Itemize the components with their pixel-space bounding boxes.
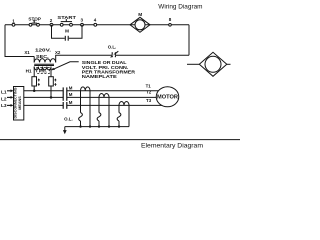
wire: phase line 1: [24, 90, 159, 92]
svg-text:PRI.: PRI.: [39, 68, 47, 73]
wire: overload trip bus: [65, 126, 129, 128]
overload heater OL2: [99, 94, 109, 98]
ground arrow at bus left end: [63, 127, 67, 135]
node 8: [169, 24, 172, 27]
svg-text:T1: T1: [146, 83, 152, 88]
wire: L1 lead-in arrow: [7, 89, 14, 92]
pushbutton STOP (NC): [29, 21, 39, 26]
fuse F2 (control primary fuse, right): [49, 77, 54, 98]
wire: left vertical from rail down to X1 level: [5, 25, 34, 57]
svg-text:4: 4: [94, 18, 97, 23]
wire: phase line 2: [24, 96, 157, 98]
pushbutton START (NO): [60, 19, 72, 26]
wire: OL3 left drop with OL contact: [117, 105, 121, 126]
node 1: [12, 23, 15, 26]
svg-text:8: 8: [169, 17, 172, 22]
disconnecting means box: [14, 87, 24, 121]
node 3: [81, 23, 84, 26]
connection arrows beside fuse F1: [38, 79, 40, 86]
coil M (motor starter coil): [130, 17, 150, 32]
wire: control return rail to X2: [56, 55, 189, 62]
wire: return rail gap at OL contact (rail drawn continuous, small white gap): [113, 54, 116, 56]
svg-text:L1: L1: [1, 90, 7, 96]
contact M power pole 2: [63, 94, 67, 101]
svg-text:O.L.: O.L.: [108, 45, 117, 50]
svg-text:T3: T3: [146, 98, 152, 103]
wire: OL1 left drop with OL contact: [79, 91, 83, 127]
transformer T1 secondary winding: [34, 57, 56, 63]
svg-text:3: 3: [81, 18, 84, 23]
wire: OL2 left drop with OL contact: [97, 97, 101, 126]
svg-text:MOTOR: MOTOR: [157, 94, 178, 100]
transformer core: [34, 64, 54, 65]
svg-text:1: 1: [12, 18, 15, 23]
svg-text:X2: X2: [55, 50, 61, 55]
svg-text:X1: X1: [24, 50, 30, 55]
svg-text:T2: T2: [146, 90, 152, 95]
overload heater OL3: [119, 102, 129, 106]
separator line: [0, 139, 240, 141]
overload heater OL1: [81, 87, 91, 91]
node 4: [94, 23, 97, 26]
wire: OL1 right drop: [89, 91, 91, 127]
wire: OL3 right drop: [128, 105, 130, 126]
fuse F1 (control primary fuse, left): [32, 77, 37, 91]
svg-text:O.L.: O.L.: [64, 117, 73, 122]
contact M power pole 3: [63, 102, 67, 109]
wire: L2 lead-in arrow: [7, 96, 14, 99]
svg-text:M: M: [69, 100, 73, 105]
wire: OL2 right drop: [108, 97, 110, 126]
note pointer arrow to primary: [51, 62, 79, 71]
svg-text:L2: L2: [1, 96, 7, 102]
svg-text:M: M: [69, 92, 73, 97]
wire: L3 lead-in arrow: [7, 104, 14, 107]
contact O.L. (control circuit, NC): [111, 51, 119, 57]
contact M power pole 1: [63, 87, 67, 94]
svg-text:Wiring Diagram: Wiring Diagram: [158, 4, 202, 11]
motor: [156, 87, 179, 107]
svg-text:L3: L3: [1, 103, 7, 109]
contact M auxiliary (NO): [65, 36, 68, 41]
svg-text:M: M: [138, 12, 142, 18]
legend coil symbol (right): [187, 52, 231, 76]
wire: top control rail: [5, 24, 189, 26]
svg-text:START: START: [57, 15, 76, 20]
junction dots on bus: [79, 125, 120, 127]
junction dot fuse F1 to L1: [33, 90, 36, 93]
svg-text:2: 2: [50, 18, 53, 23]
svg-text:M: M: [65, 28, 69, 33]
wire: M auxiliary contact branch: [52, 25, 83, 38]
svg-text:Elementary Diagram: Elementary Diagram: [141, 142, 203, 149]
label PRI. in dashed box: [37, 68, 50, 74]
wire: right vertical from rail corner down to return rail: [188, 25, 190, 55]
transformer primary winding: [34, 67, 51, 77]
svg-text:MEANS: MEANS: [18, 96, 22, 110]
node 2: [50, 23, 53, 26]
svg-text:M: M: [69, 85, 73, 90]
svg-text:NAMEPLATE: NAMEPLATE: [82, 74, 117, 79]
svg-text:120V.: 120V.: [35, 47, 51, 53]
connection arrows beside fuse F2: [55, 79, 57, 86]
wire: phase line 3: [24, 104, 162, 106]
note text: transformer connection: [82, 60, 136, 79]
svg-text:H1: H1: [26, 69, 32, 74]
svg-text:STOP: STOP: [28, 17, 41, 22]
junction dot fuse F2 to L2: [50, 96, 53, 99]
